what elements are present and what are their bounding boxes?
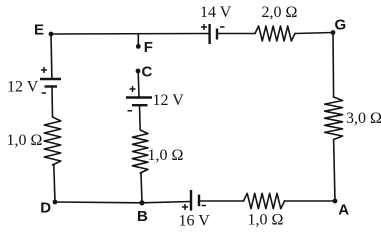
svg-text:G: G xyxy=(335,17,347,34)
battery V2 plus sign xyxy=(130,86,136,92)
svg-text:F: F xyxy=(144,39,153,56)
node C junction dot xyxy=(136,69,141,74)
battery V1 plus sign xyxy=(41,67,47,73)
wire resistor 1.0 left to 12V battery left xyxy=(51,87,54,118)
wire node C to 12V battery middle xyxy=(137,71,140,98)
battery V3 minus sign xyxy=(220,26,225,28)
node E junction dot xyxy=(49,32,54,37)
svg-text:A: A xyxy=(338,202,349,219)
battery V2 12V middle long plate xyxy=(126,96,152,98)
svg-text:3,0 Ω: 3,0 Ω xyxy=(346,110,381,127)
battery V2 12V middle short plate xyxy=(132,104,148,106)
battery V1 12V left short plate xyxy=(45,85,58,87)
wire node B to node D xyxy=(55,201,142,204)
svg-text:16 V: 16 V xyxy=(179,213,211,230)
svg-text:E: E xyxy=(34,22,44,39)
wire resistor 1.0 middle to node B xyxy=(141,173,142,203)
svg-text:C: C xyxy=(142,64,153,81)
svg-text:1,0 Ω: 1,0 Ω xyxy=(148,147,184,164)
battery V4 16V bottom long plate xyxy=(190,190,192,211)
battery V1 minus sign xyxy=(42,92,47,94)
svg-text:B: B xyxy=(137,208,148,225)
battery V2 minus sign xyxy=(128,110,133,112)
resistor R left 1,0 ohm zigzag xyxy=(44,117,61,165)
battery V4 plus sign xyxy=(182,204,188,210)
svg-text:1,0 Ω: 1,0 Ω xyxy=(248,212,284,229)
wire stub to node F xyxy=(137,34,139,45)
battery V4 16V bottom short plate xyxy=(198,195,200,207)
wire node A to resistor 1.0 bottom xyxy=(285,200,336,202)
wire resistor 2.0 to node G xyxy=(295,33,333,34)
svg-text:12 V: 12 V xyxy=(153,92,185,109)
resistor R top 2,0 ohm zigzag xyxy=(255,26,295,41)
wire top E to 14V battery xyxy=(51,33,210,36)
wire 16V battery to node B xyxy=(142,202,191,203)
node A junction dot xyxy=(333,199,338,204)
svg-text:14 V: 14 V xyxy=(200,4,232,21)
node F junction dot xyxy=(136,44,141,49)
node G junction dot xyxy=(331,30,336,35)
wire node G down to resistor 3.0 xyxy=(332,33,335,98)
wire resistor 3.0 to node A xyxy=(334,140,335,202)
wire 12V battery middle to resistor 1.0 middle xyxy=(139,105,142,130)
battery V3 plus sign xyxy=(201,24,207,30)
battery V1 12V left long plate xyxy=(40,78,61,80)
battery V4 minus sign xyxy=(202,205,207,207)
resistor R right 3,0 ohm zigzag xyxy=(325,97,343,140)
node D junction dot xyxy=(53,200,58,205)
wire 12V battery left to node E xyxy=(50,34,53,79)
node B junction dot xyxy=(139,200,144,205)
svg-text:12 V: 12 V xyxy=(7,79,39,96)
svg-text:D: D xyxy=(40,200,51,217)
wire 14V battery to resistor 2.0 xyxy=(217,33,255,35)
resistor R middle 1,0 ohm zigzag xyxy=(132,130,148,173)
battery V3 14V top short plate xyxy=(216,29,218,40)
wire resistor 1.0 bottom to 16V battery xyxy=(199,200,244,202)
resistor R bottom 1,0 ohm zigzag xyxy=(244,193,285,208)
wire node D to resistor 1.0 left xyxy=(54,165,55,202)
battery V3 14V top long plate xyxy=(208,24,210,44)
svg-text:1,0 Ω: 1,0 Ω xyxy=(7,132,43,149)
svg-text:2,0 Ω: 2,0 Ω xyxy=(262,4,298,21)
